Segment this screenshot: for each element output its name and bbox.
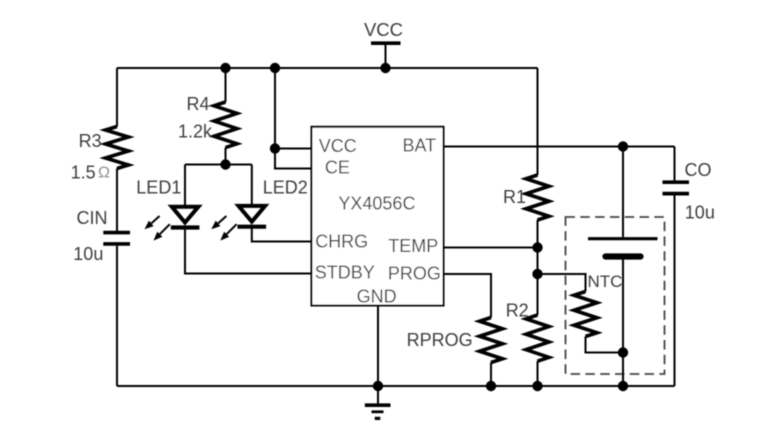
svg-text:CE: CE	[325, 158, 350, 178]
wire TEMP	[444, 247, 538, 249]
node junction R4 bottom	[220, 159, 230, 169]
ground	[365, 386, 391, 418]
svg-text:CHRG: CHRG	[315, 232, 368, 252]
node junction GND	[373, 381, 383, 391]
svg-text:1.5: 1.5	[71, 163, 96, 183]
node junction VCC pin	[270, 143, 280, 153]
svg-text:PROG: PROG	[388, 263, 441, 283]
LED LED2	[211, 165, 266, 241]
svg-text:GND: GND	[357, 287, 397, 307]
node junction NTC bottom	[618, 347, 628, 357]
node junction RPROG bottom	[486, 381, 496, 391]
capacitor CIN	[103, 233, 130, 386]
svg-text:VCC: VCC	[364, 19, 403, 40]
svg-text:CIN: CIN	[77, 208, 108, 228]
svg-text:TEMP: TEMP	[388, 236, 438, 256]
resistor R1	[526, 175, 549, 315]
LED LED1	[145, 165, 200, 241]
svg-text:VCC: VCC	[319, 136, 357, 156]
node junction R2 bottom	[532, 381, 542, 391]
wire LED2 cathode to CHRG	[252, 227, 313, 242]
battery BT1	[588, 147, 658, 387]
node junction VCC stem	[380, 63, 390, 73]
wire R1 branch	[537, 68, 539, 175]
wire GND pin	[377, 306, 379, 387]
svg-text:R2: R2	[506, 300, 529, 320]
svg-text:R3: R3	[79, 131, 102, 151]
svg-text:CO: CO	[685, 160, 712, 180]
wire LED1 cathode to STDBY	[185, 228, 313, 274]
wire PROG	[444, 274, 492, 318]
resistor R4	[214, 68, 237, 165]
svg-text:NTC: NTC	[588, 272, 623, 291]
svg-text:YX4056C: YX4056C	[338, 194, 415, 214]
svg-text:RPROG: RPROG	[407, 330, 473, 350]
svg-text:R1: R1	[503, 187, 526, 207]
IC U1 YX4056C body	[312, 127, 444, 306]
thermistor NTC	[574, 292, 623, 353]
svg-text:10u: 10u	[685, 203, 715, 223]
node junction battery bottom	[618, 381, 628, 391]
resistor RPROG	[480, 318, 503, 387]
svg-text:Ω: Ω	[98, 165, 110, 182]
resistor R2	[526, 315, 549, 386]
wire bottom rail	[117, 385, 675, 387]
wire NTC branch	[538, 274, 586, 292]
svg-text:LED2: LED2	[263, 177, 308, 197]
wire VCC pin	[275, 148, 313, 150]
power flag VCC	[371, 43, 401, 68]
wire LED anode bus	[185, 164, 252, 166]
wire VCC/CE branch	[275, 68, 313, 169]
node junction CE branch top	[270, 63, 280, 73]
svg-text:LED1: LED1	[136, 177, 181, 197]
node junction TEMP	[532, 242, 542, 252]
svg-text:STDBY: STDBY	[315, 263, 375, 283]
svg-text:BAT: BAT	[403, 135, 437, 155]
wire BAT	[444, 146, 675, 148]
node junction R4 top	[220, 63, 230, 73]
svg-text:1.2k: 1.2k	[178, 122, 213, 142]
resistor R3	[106, 68, 129, 232]
node junction BAT	[618, 141, 628, 151]
wire top rail	[117, 67, 538, 69]
svg-text:R4: R4	[187, 94, 210, 114]
battery pack dashed outline	[566, 217, 665, 374]
svg-text:10u: 10u	[73, 244, 103, 264]
node junction NTC tap	[532, 269, 542, 279]
capacitor CO	[663, 147, 690, 387]
